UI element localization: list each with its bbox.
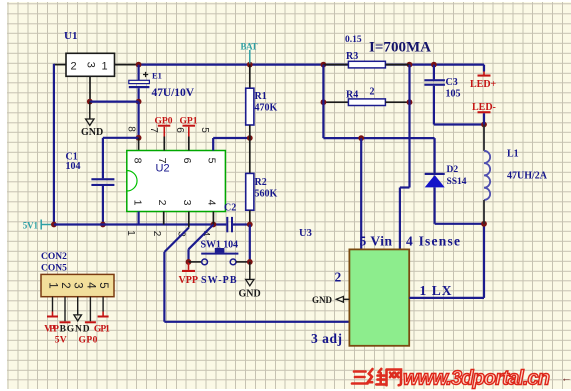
wire pin8 net (103, 102, 142, 151)
U2 pin2 stub (163, 212, 165, 225)
capacitor C2 104 (224, 203, 236, 233)
CON5 pin1 VPP (44, 297, 59, 335)
connector CON2 CON5 (41, 252, 114, 297)
svg-text:0.15: 0.15 (345, 35, 362, 45)
wire left rail 5V1 vertical (53, 64, 55, 225)
wire R3R4 right to Isense (400, 65, 410, 250)
svg-text:C2: C2 (224, 203, 236, 214)
svg-text:7: 7 (148, 127, 159, 133)
U2 pin3 stub (188, 212, 190, 228)
svg-text:5 Vin: 5 Vin (360, 234, 393, 249)
svg-text:105: 105 (446, 89, 461, 100)
svg-text:5: 5 (206, 158, 218, 164)
IC U2 (127, 151, 226, 212)
capacitor C3 105 (424, 65, 487, 128)
svg-text:GND: GND (312, 295, 333, 305)
resistor R2 560K (246, 173, 278, 224)
connector U1 (64, 30, 115, 76)
port LED- (472, 102, 496, 125)
CON5 pin3 GND (60, 297, 90, 335)
svg-text:3: 3 (84, 62, 96, 68)
svg-text:47U/10V: 47U/10V (152, 87, 195, 99)
svg-text:4: 4 (206, 200, 218, 206)
svg-text:1 LX: 1 LX (420, 283, 452, 298)
CON5 pin5 GP1 (94, 297, 110, 335)
wire pin3 to adj (164, 228, 349, 322)
svg-text:5: 5 (97, 282, 109, 288)
svg-text:R4: R4 (346, 90, 358, 101)
svg-text:6: 6 (174, 127, 185, 133)
svg-text:4: 4 (84, 282, 96, 289)
watermark 三维网www.3dportal.cn (352, 368, 571, 390)
resistor R4 2 (321, 87, 413, 106)
diode D2 SS14 (425, 165, 487, 227)
inductor L1 47UH/2A (484, 125, 548, 224)
regulator U3 (299, 228, 409, 346)
svg-text:7: 7 (156, 158, 168, 164)
svg-text:3: 3 (72, 282, 84, 288)
port LED+ (470, 65, 497, 90)
svg-text:2: 2 (335, 270, 342, 285)
svg-text:2: 2 (156, 200, 168, 206)
capacitor C1 104 (66, 138, 115, 228)
port VPP (179, 262, 198, 286)
wire R2 to switch (247, 225, 253, 265)
svg-text:470K: 470K (255, 103, 278, 114)
svg-text:3 adj: 3 adj (311, 331, 342, 346)
port GP0 (155, 117, 173, 151)
svg-text:6: 6 (181, 158, 193, 164)
svg-text:R3: R3 (346, 51, 358, 62)
wire BAT rail (136, 62, 484, 68)
svg-text:1: 1 (47, 282, 59, 288)
svg-text:L1: L1 (507, 149, 519, 160)
svg-text:U2: U2 (156, 163, 170, 175)
svg-text:R1: R1 (255, 91, 267, 102)
U3 pin GND arrow (312, 295, 349, 305)
node BAT (241, 41, 258, 63)
switch SW1 SW-PB (189, 240, 250, 287)
svg-text:47UH/2A: 47UH/2A (507, 171, 548, 182)
U2 pin4 stub (212, 212, 214, 225)
svg-text:D2: D2 (447, 165, 459, 175)
svg-text:VPP: VPP (179, 275, 198, 286)
svg-text:8: 8 (126, 126, 137, 132)
wire pin4 to VPP (186, 225, 214, 265)
svg-text:SS14: SS14 (447, 177, 467, 187)
svg-text:SW-PB: SW-PB (201, 275, 237, 286)
svg-text:←: ← (561, 373, 571, 385)
svg-text:4 Isense: 4 Isense (406, 234, 460, 249)
svg-text:GND: GND (81, 127, 103, 138)
resistor R1 470K (246, 65, 278, 174)
capacitor E1 47U/10V (129, 65, 195, 105)
svg-text:C3: C3 (446, 77, 458, 88)
svg-text:8: 8 (132, 158, 144, 164)
svg-text:5V1: 5V1 (23, 220, 39, 230)
svg-text:E1: E1 (152, 71, 162, 81)
svg-text:CON2: CON2 (41, 252, 67, 262)
wire U1 pin2 left (54, 64, 66, 66)
svg-text:1: 1 (102, 61, 108, 73)
svg-text:2: 2 (59, 282, 71, 288)
wire 5V1 row (54, 222, 253, 228)
wire U1 pin3 stub (89, 76, 91, 101)
svg-text:GP1: GP1 (94, 325, 110, 335)
svg-text:GND: GND (239, 289, 261, 300)
ground at SW1 (239, 262, 261, 300)
svg-text:1: 1 (125, 230, 136, 236)
svg-text:I=700MA: I=700MA (369, 40, 431, 56)
CON5 pin2 5V (55, 297, 71, 346)
svg-text:CON5: CON5 (41, 264, 67, 274)
wire U1 pin1 right (115, 64, 139, 66)
svg-text:104: 104 (66, 161, 81, 172)
wire pin5 to R1/R2 (213, 135, 253, 150)
svg-text:5V: 5V (55, 336, 67, 346)
svg-text:U3: U3 (299, 228, 312, 239)
CON5 pin4 GP0 (79, 297, 98, 346)
ground under U1 (81, 99, 139, 138)
svg-text:560K: 560K (255, 189, 278, 200)
wire LX (409, 224, 484, 298)
node 5V1 (23, 220, 57, 231)
svg-text:2: 2 (151, 231, 162, 237)
svg-text:2: 2 (71, 61, 77, 73)
svg-text:R2: R2 (255, 177, 267, 188)
wire Vin (360, 138, 362, 249)
svg-text:U1: U1 (64, 30, 77, 42)
svg-text:2: 2 (370, 87, 375, 98)
resistor R3 0.15 (323, 35, 409, 68)
svg-text:5: 5 (199, 127, 210, 133)
svg-text:www.3dportal.cn: www.3dportal.cn (403, 368, 550, 390)
svg-text:BGND: BGND (60, 325, 90, 335)
svg-text:VPP: VPP (44, 325, 59, 335)
svg-text:1: 1 (132, 200, 144, 206)
port GP1 (180, 117, 198, 151)
U2 pin1 stub (138, 212, 140, 225)
svg-text:GP0: GP0 (79, 336, 98, 346)
svg-text:LED+: LED+ (470, 79, 497, 90)
wire R3R4 left to diode cathode (323, 65, 434, 173)
svg-text:3: 3 (181, 200, 193, 206)
svg-text:BAT: BAT (241, 41, 258, 51)
